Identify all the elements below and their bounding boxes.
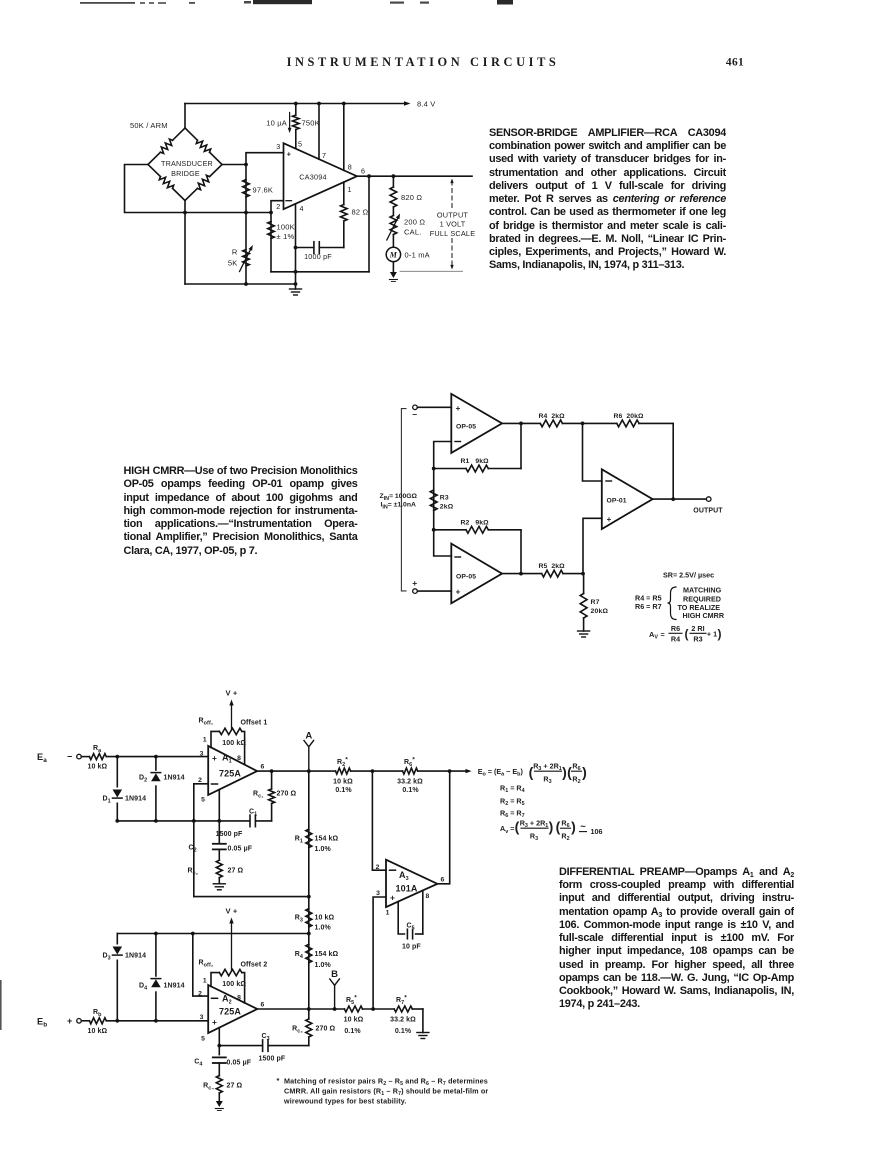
- wire pot to meter: [392, 235, 394, 248]
- wire bridge bottom stem: [184, 201, 186, 285]
- wire R2 down to lower output: [520, 530, 522, 574]
- node D4 top: [154, 932, 158, 936]
- wire 8.4V supply rail: [185, 103, 407, 105]
- svg-text:2: 2: [198, 777, 202, 784]
- svg-text:R6 20kΩ: R6 20kΩ: [614, 413, 645, 420]
- dimension base line: [400, 270, 463, 272]
- svg-text:Offset 1: Offset 1: [241, 720, 268, 727]
- svg-text:Matching of resistor pairs R2: Matching of resistor pairs R2 – R5 and R…: [284, 1076, 488, 1087]
- svg-text:6: 6: [361, 167, 365, 176]
- svg-text:Roff₁: Roff₁: [199, 718, 214, 727]
- svg-text:0-1 mA: 0-1 mA: [405, 250, 430, 259]
- svg-text:2: 2: [276, 202, 280, 211]
- node R2/R3 bottom: [432, 528, 436, 532]
- svg-text:OP-01: OP-01: [607, 497, 627, 504]
- wire rail to bridge top: [184, 104, 186, 129]
- node R2 elbow on lower output: [519, 572, 523, 576]
- svg-text:+: +: [390, 893, 395, 903]
- node R1/R3: [307, 895, 311, 899]
- svg-text:R6: R6: [561, 818, 569, 829]
- transducer bridge arm top-left: [148, 152, 160, 164]
- resistor R7* 33.2k 0.1%: [394, 1006, 412, 1012]
- node pin4/feedback: [294, 270, 298, 274]
- supply arrowhead: [404, 101, 411, 106]
- node 100K top / pin2: [269, 211, 273, 215]
- svg-text:0.1%: 0.1%: [402, 787, 419, 794]
- resistor Rc4 27 ohm: [216, 1076, 222, 1093]
- svg-text:C2: C2: [189, 845, 197, 854]
- wire pin 8 A3: [422, 891, 424, 934]
- node pin2 on bus: [192, 819, 196, 823]
- op-amp OP-01: [602, 469, 653, 529]
- svg-text:0.05 µF: 0.05 µF: [228, 846, 253, 853]
- svg-text:10 pF: 10 pF: [402, 944, 421, 951]
- wire A1 output bus: [257, 770, 335, 772]
- wire diode top bus A2: [117, 933, 308, 935]
- input terminal top (-): [413, 405, 418, 410]
- wire R6 feedback down: [672, 423, 674, 499]
- ground R7*: [417, 1032, 429, 1034]
- wire bridge right to 97.6K column: [222, 164, 246, 166]
- svg-text:HIGH CMRR: HIGH CMRR: [683, 611, 725, 620]
- node OP-01 output/feedback: [671, 497, 675, 501]
- svg-text:725A: 725A: [219, 769, 241, 779]
- resistor Rb 10k: [81, 1020, 89, 1022]
- svg-text:OP-05: OP-05: [456, 423, 476, 430]
- wire top opamp feedback to R1: [434, 442, 452, 469]
- svg-text:5: 5: [201, 797, 205, 804]
- svg-text:8.4 V: 8.4 V: [417, 99, 436, 108]
- svg-text:8: 8: [426, 893, 430, 900]
- svg-text:Rc₁: Rc₁: [253, 791, 264, 800]
- svg-text:33.2 kΩ: 33.2 kΩ: [390, 1016, 416, 1023]
- wire R3 bottom to lower opamp minus: [434, 530, 452, 556]
- svg-text:R2*: R2*: [337, 757, 348, 768]
- svg-text:5K: 5K: [228, 259, 238, 268]
- wire 100K bottom to pin4 column, feedback bus: [271, 271, 369, 273]
- resistor R4 2k: [540, 420, 562, 427]
- node A3 plus tap: [371, 1007, 375, 1011]
- svg-text:10 µA: 10 µA: [266, 119, 287, 128]
- svg-text:1: 1: [203, 737, 207, 744]
- wire pin 5 A1: [218, 790, 220, 844]
- wire C1 up to Rc1: [271, 803, 273, 821]
- node R1 elbow on output: [519, 422, 523, 426]
- svg-text:): ): [582, 764, 587, 780]
- input terminal bottom (+): [413, 589, 418, 594]
- wire pin 8 from rail: [343, 104, 345, 171]
- dimension line output bracket: [451, 181, 453, 209]
- svg-text:6: 6: [261, 764, 265, 771]
- wire bridge left node loop: [125, 165, 186, 213]
- svg-text:R1: R1: [295, 836, 303, 845]
- svg-text:wirewound types for best stabi: wirewound types for best stability.: [283, 1097, 407, 1106]
- svg-text:5: 5: [298, 140, 302, 149]
- svg-text:750K: 750K: [302, 119, 320, 128]
- wire pin 5 A2: [218, 1028, 220, 1055]
- op-amp OP-05 bottom: [451, 544, 502, 604]
- svg-text:10 kΩ: 10 kΩ: [88, 764, 108, 771]
- wire to Eo arrow: [450, 770, 469, 772]
- svg-text:6: 6: [261, 1002, 265, 1009]
- svg-text:725A: 725A: [219, 1007, 241, 1017]
- svg-text:R3: R3: [440, 495, 449, 502]
- node pin5/C3: [217, 1044, 221, 1048]
- svg-text:OUTPUT: OUTPUT: [437, 211, 469, 220]
- svg-text:R5*: R5*: [346, 995, 357, 1006]
- svg-text:Ra: Ra: [93, 745, 102, 754]
- svg-text:R3 + 2R1: R3 + 2R1: [533, 761, 562, 772]
- svg-text:(: (: [556, 819, 561, 835]
- svg-text:D3: D3: [103, 953, 111, 962]
- transducer bridge arm bottom-right: [210, 165, 222, 177]
- svg-text:10 kΩ: 10 kΩ: [88, 1028, 108, 1035]
- resistor Rc1 270 ohm: [269, 789, 275, 804]
- svg-text:Ea: Ea: [37, 752, 47, 764]
- wire pin 2 A1: [194, 784, 208, 897]
- wire pin2 elbow: [271, 201, 284, 213]
- wire pin 7 from rail: [318, 104, 320, 160]
- svg-text:=: =: [661, 630, 665, 639]
- svg-text:2 RI: 2 RI: [691, 624, 704, 633]
- svg-text:R4 2kΩ: R4 2kΩ: [539, 413, 566, 420]
- svg-text:20kΩ: 20kΩ: [591, 608, 609, 615]
- svg-text:R2 = R5: R2 = R5: [500, 796, 525, 807]
- svg-text:~: ~: [580, 822, 586, 833]
- svg-text:M: M: [389, 251, 398, 260]
- op-amp A1 725A: [208, 746, 257, 795]
- svg-text:INSTRUMENTATION CIRCUITS: INSTRUMENTATION CIRCUITS: [287, 55, 560, 69]
- node D2 top: [154, 755, 158, 759]
- svg-text:6: 6: [441, 877, 445, 884]
- svg-text:R7*: R7*: [396, 995, 407, 1006]
- ground A2 comp: [216, 1101, 223, 1107]
- svg-text:2: 2: [376, 864, 380, 871]
- wire lower bus y=212.5: [185, 212, 271, 214]
- wire meter to ground: [392, 262, 394, 272]
- node rail pin8: [342, 102, 346, 106]
- resistor R3 2k: [433, 469, 435, 530]
- node D4 bottom: [154, 1019, 158, 1023]
- svg-text:10 kΩ: 10 kΩ: [344, 1016, 364, 1023]
- capacitor C3 1500 pF: [219, 1045, 262, 1047]
- svg-text:R6*: R6*: [404, 757, 415, 768]
- node D1 top: [115, 755, 119, 759]
- wire pin 1 A3 to C5: [398, 902, 404, 934]
- resistor R6* 33.2k 0.1%: [403, 768, 418, 774]
- svg-text:1500 pF: 1500 pF: [216, 831, 243, 838]
- wire OP-01 plus input: [583, 518, 602, 573]
- svg-text:101A: 101A: [396, 884, 418, 894]
- node pin5 on bus: [217, 819, 221, 823]
- resistor 82 ohm / pin 1: [343, 182, 345, 204]
- diode D3 1N914: [116, 934, 118, 1021]
- resistor R1 154k: [306, 829, 312, 848]
- svg-text:± 1%: ± 1%: [277, 232, 295, 241]
- svg-text:+: +: [67, 1016, 72, 1026]
- transducer bridge arm bottom-left: [173, 188, 185, 200]
- resistor R4 154k: [306, 944, 312, 963]
- wire pin3 elbow: [246, 153, 284, 213]
- svg-text:0.05 µF: 0.05 µF: [227, 1060, 252, 1067]
- svg-text:): ): [549, 819, 554, 835]
- svg-text:*: *: [277, 1076, 280, 1085]
- resistor Ra 10k: [81, 756, 89, 758]
- svg-text:27 Ω: 27 Ω: [228, 868, 244, 875]
- node A3 feedback: [448, 769, 452, 773]
- svg-text:1.0%: 1.0%: [315, 924, 332, 931]
- svg-text:200 Ω: 200 Ω: [404, 218, 425, 227]
- wire feedback loop down: [368, 176, 370, 272]
- svg-text:100 kΩ: 100 kΩ: [222, 981, 246, 988]
- left-edge scan mark: [0, 980, 2, 1030]
- svg-text:R3: R3: [295, 915, 303, 924]
- svg-text:3: 3: [376, 890, 380, 897]
- svg-text:3: 3: [276, 142, 280, 151]
- node R5K bottom: [244, 282, 248, 286]
- svg-text:D1: D1: [103, 796, 111, 805]
- potentiometer 200 ohm CAL: [392, 207, 394, 216]
- op-amp A3 101A: [386, 860, 437, 907]
- svg-text:0.1%: 0.1%: [344, 1028, 361, 1035]
- diode D1 1N914: [116, 757, 118, 821]
- svg-text:CA3094: CA3094: [299, 173, 327, 182]
- node R5/R7/OP-01 plus: [581, 572, 585, 576]
- svg-text:R6: R6: [572, 761, 580, 772]
- ground meter: [390, 272, 397, 278]
- wire R1 up to output: [520, 423, 522, 468]
- svg-text:−: −: [67, 752, 72, 762]
- svg-text:1: 1: [386, 910, 390, 917]
- svg-text:R3: R3: [543, 774, 551, 785]
- svg-text:R4: R4: [671, 634, 680, 643]
- resistor R5 2k: [542, 570, 563, 577]
- svg-text:1.0%: 1.0%: [315, 846, 332, 853]
- svg-text:R1 9kΩ: R1 9kΩ: [461, 458, 490, 465]
- resistor R3 10k: [306, 909, 312, 927]
- svg-text:C4: C4: [194, 1059, 202, 1068]
- node rail pin7: [317, 102, 321, 106]
- svg-text:+: +: [287, 150, 292, 159]
- resistor 97.6K: [243, 180, 250, 198]
- svg-text:1N914: 1N914: [125, 953, 146, 960]
- svg-text:V +: V +: [226, 689, 238, 698]
- wire bottom rail: [185, 283, 296, 285]
- svg-text:Av =: Av =: [500, 824, 514, 835]
- svg-text:4: 4: [300, 204, 304, 213]
- svg-text:B: B: [331, 969, 338, 980]
- resistor Rc2 27 ohm: [216, 860, 222, 877]
- svg-text:BRIDGE: BRIDGE: [171, 169, 200, 178]
- resistor R7 20k: [583, 574, 585, 594]
- node A junction: [307, 769, 311, 773]
- potentiometer R 5K: [245, 213, 247, 285]
- svg-text:−: −: [412, 409, 417, 419]
- node meter branch tap: [392, 174, 396, 178]
- svg-text:R3: R3: [530, 831, 538, 842]
- svg-text:+: +: [212, 753, 217, 763]
- svg-text:AV: AV: [649, 630, 658, 641]
- wire OP-01 output: [653, 498, 707, 500]
- svg-text:R2: R2: [561, 831, 569, 842]
- wire A2 output bus: [257, 1008, 344, 1010]
- node 97.6K bottom: [244, 211, 248, 215]
- svg-text:1N914: 1N914: [164, 983, 185, 990]
- svg-text:CAL.: CAL.: [404, 228, 421, 237]
- wire diode bottom bus to C1: [117, 820, 219, 822]
- svg-text:R7: R7: [591, 599, 600, 606]
- svg-text:R3 + 2R1: R3 + 2R1: [520, 818, 549, 829]
- output terminal: [706, 497, 711, 502]
- pot 200 arrow: [387, 216, 399, 240]
- svg-text:100 kΩ: 100 kΩ: [222, 740, 246, 747]
- svg-text:Roff₂: Roff₂: [199, 960, 214, 969]
- node D3 bottom: [115, 1019, 119, 1023]
- input impedance bracket: [401, 409, 406, 591]
- svg-text:0.1%: 0.1%: [335, 787, 352, 794]
- svg-text:OUTPUT: OUTPUT: [693, 508, 723, 515]
- wire top output with R4: [502, 422, 540, 424]
- offset pot Roff1 100k: [211, 731, 219, 747]
- resistor R5* 10k 0.1%: [344, 1006, 362, 1012]
- ground R7: [578, 630, 590, 632]
- wire bottom input: [417, 590, 451, 592]
- svg-text:R2: R2: [572, 774, 580, 785]
- resistor R1 9k: [434, 468, 466, 470]
- svg-text:8: 8: [348, 163, 352, 172]
- svg-text:10 kΩ: 10 kΩ: [333, 778, 353, 785]
- svg-text:33.2 kΩ: 33.2 kΩ: [397, 778, 423, 785]
- wire A3 plus branch: [373, 897, 386, 1009]
- minus symbol A3: [390, 869, 396, 871]
- svg-text:SR= 2.5V/ µsec: SR= 2.5V/ µsec: [663, 571, 714, 580]
- svg-text:82 Ω: 82 Ω: [352, 208, 369, 217]
- svg-text:R: R: [232, 248, 238, 257]
- node bridge bottom junction: [183, 211, 187, 215]
- capacitor C1 1500 pF: [219, 820, 250, 822]
- resistor 750K with pin 5: [295, 104, 297, 116]
- svg-text:R1 = R4: R1 = R4: [500, 783, 525, 794]
- resistor 820 ohm: [392, 176, 394, 187]
- svg-text:A3: A3: [399, 870, 409, 882]
- svg-text:D2: D2: [139, 775, 147, 784]
- svg-text:106: 106: [591, 827, 603, 836]
- svg-text:1500 pF: 1500 pF: [259, 1056, 286, 1063]
- wire R7 to ground: [422, 1009, 424, 1033]
- svg-text:5: 5: [201, 1036, 205, 1043]
- node 97.6K tap: [244, 163, 248, 167]
- svg-text:2kΩ: 2kΩ: [440, 504, 454, 511]
- node pin4/cap: [294, 246, 298, 250]
- svg-text:0.1%: 0.1%: [395, 1028, 412, 1035]
- node pin2 bus A2: [191, 932, 195, 936]
- capacitor C5 10 pF: [406, 929, 408, 939]
- wire top input: [417, 406, 451, 408]
- node R1/R3 top: [432, 467, 436, 471]
- node D2 bottom: [154, 819, 158, 823]
- resistor R2* 10k 0.1%: [336, 768, 351, 774]
- svg-text:V +: V +: [226, 907, 238, 916]
- svg-text:D4: D4: [139, 983, 147, 992]
- svg-text:): ): [571, 819, 576, 835]
- svg-text:+: +: [607, 515, 612, 524]
- svg-text:R6: R6: [671, 624, 680, 633]
- node ground stem: [294, 282, 298, 286]
- svg-text:A: A: [305, 731, 312, 742]
- svg-text:270 Ω: 270 Ω: [277, 791, 297, 798]
- svg-text:97.6K: 97.6K: [253, 186, 274, 195]
- svg-text:100K: 100K: [277, 223, 295, 232]
- svg-text:): ): [718, 627, 722, 641]
- svg-text:1N914: 1N914: [164, 775, 185, 782]
- svg-text:1000 pF: 1000 pF: [304, 252, 332, 261]
- node R4/R6/OP-01 minus: [581, 422, 585, 426]
- svg-text:+: +: [456, 404, 461, 413]
- svg-text:R6 = R7: R6 = R7: [635, 602, 662, 611]
- resistor chain column: [308, 771, 310, 1009]
- svg-text:1 VOLT: 1 VOLT: [440, 220, 466, 229]
- svg-text:Eb: Eb: [37, 1016, 47, 1028]
- svg-text:+: +: [212, 1017, 217, 1027]
- node A3 minus tap: [371, 769, 375, 773]
- resistor R6 20k: [617, 420, 639, 427]
- svg-text:10 kΩ: 10 kΩ: [315, 915, 335, 922]
- ground circuit 1: [295, 284, 297, 289]
- svg-text:1: 1: [348, 185, 352, 194]
- node Rc1 top on output: [270, 769, 274, 773]
- svg-text:50K / ARM: 50K / ARM: [130, 121, 168, 130]
- svg-text:1N914: 1N914: [125, 796, 146, 803]
- op-amp A2 725A: [208, 985, 257, 1033]
- minus symbol A1: [212, 783, 218, 785]
- capacitor C4 0.05uF: [213, 1056, 226, 1058]
- svg-text:IIN= ±1.0nA: IIN= ±1.0nA: [381, 502, 416, 511]
- svg-text:(: (: [685, 627, 689, 641]
- node B junction: [333, 1007, 337, 1011]
- capacitor C2 0.05uF: [213, 843, 226, 845]
- page-top scan bleed marks: [80, 0, 513, 5]
- wire bottom output with R5: [502, 573, 542, 575]
- svg-text:OP-05: OP-05: [456, 573, 476, 580]
- svg-text:R5 2kΩ: R5 2kΩ: [539, 563, 566, 570]
- svg-text:FULL SCALE: FULL SCALE: [430, 229, 476, 238]
- svg-text:Rc₄: Rc₄: [203, 1083, 214, 1092]
- ground A1 comp: [213, 883, 225, 885]
- svg-text:461: 461: [726, 57, 744, 69]
- transducer bridge arm top-right: [185, 128, 197, 140]
- wire pin 2 A2: [193, 934, 208, 997]
- op-amp CA3094 triangle: [284, 143, 358, 209]
- wire A3 minus branch: [372, 771, 386, 870]
- wire A1 feedback bottom to R1/R3 junction: [194, 896, 309, 898]
- node Rc3 top: [307, 1007, 311, 1011]
- resistor Rc3 270 ohm: [308, 1009, 310, 1019]
- node D1 corner: [115, 819, 119, 823]
- meter M 0-1 mA: [386, 247, 400, 261]
- svg-text:1.0%: 1.0%: [315, 962, 332, 969]
- minus input symbol: [286, 200, 292, 202]
- svg-text:Rc₃: Rc₃: [292, 1026, 303, 1035]
- svg-text:+ 1: + 1: [707, 630, 717, 639]
- svg-text:154 kΩ: 154 kΩ: [315, 836, 339, 843]
- node rail 750K: [294, 102, 298, 106]
- svg-text:ZIN= 100GΩ: ZIN= 100GΩ: [380, 493, 418, 502]
- svg-text:R3: R3: [693, 634, 702, 643]
- pot R arrow: [240, 248, 252, 272]
- svg-text:+: +: [412, 578, 417, 588]
- svg-text:154 kΩ: 154 kΩ: [315, 951, 339, 958]
- svg-text:A1: A1: [222, 753, 232, 765]
